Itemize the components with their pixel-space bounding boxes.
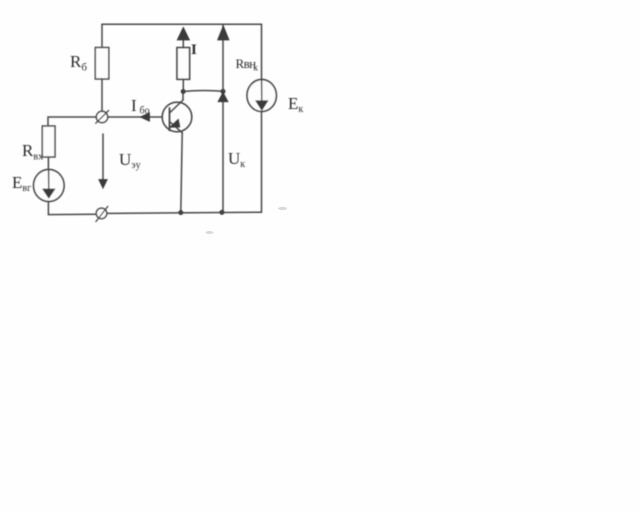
wire Rвх to source — [47, 157, 49, 170]
wire top rail — [102, 23, 262, 25]
svg-text:I: I — [191, 42, 197, 58]
wire source to bottom rail — [48, 202, 95, 215]
node Uк bottom junction — [219, 210, 224, 215]
label Uк — [228, 149, 245, 170]
label Uэу — [119, 150, 141, 171]
svg-text:к: к — [254, 63, 259, 73]
resistor Rб — [95, 48, 109, 80]
voltage arrow U input — [99, 134, 107, 188]
arrow Uк below node — [218, 92, 228, 101]
source Eк (circle with EMF arrow) — [247, 80, 276, 112]
wire collector node to Uк line — [183, 90, 223, 91]
label Rвн к — [236, 56, 259, 73]
svg-text:Rвх: Rвх — [22, 141, 43, 163]
svg-text:бо: бо — [140, 106, 150, 117]
resistor I (current source load) — [177, 27, 190, 89]
wire input loop top — [48, 117, 96, 126]
node collector junction — [181, 89, 186, 94]
transistor VT (PNP) — [162, 100, 192, 133]
label Eвг — [12, 173, 31, 194]
node emitter bottom junction — [178, 210, 183, 215]
source Eвг (circle with EMF arrow) — [34, 170, 65, 202]
label Eк — [288, 94, 303, 115]
label Rб — [70, 52, 87, 74]
wire base — [108, 116, 163, 118]
label I — [191, 42, 197, 58]
svg-text:Uэу: Uэу — [119, 150, 141, 171]
svg-text:Uк: Uк — [228, 149, 245, 170]
node Uк junction — [221, 89, 226, 94]
wire Rб to input terminal — [101, 79, 103, 111]
resistor Rвх — [42, 126, 55, 157]
svg-text:Rб: Rб — [70, 52, 87, 74]
current arrow Iбо — [140, 113, 149, 121]
wire Eк branch — [261, 24, 263, 212]
arrow Uк top — [218, 26, 229, 40]
input terminal (bottom) — [96, 206, 108, 221]
wire Rб branch top — [101, 24, 103, 47]
label Iбо — [131, 96, 150, 117]
label Rвх — [22, 141, 43, 163]
wire emitter lead — [181, 133, 182, 213]
wire Uк measurement line — [222, 24, 224, 212]
wire collector lead — [182, 92, 184, 101]
svg-text:Eк: Eк — [288, 94, 303, 115]
svg-text:Eвг: Eвг — [12, 173, 31, 194]
wire bottom rail — [108, 212, 262, 213]
input terminal (top) — [96, 111, 109, 124]
svg-text:I: I — [131, 96, 137, 115]
